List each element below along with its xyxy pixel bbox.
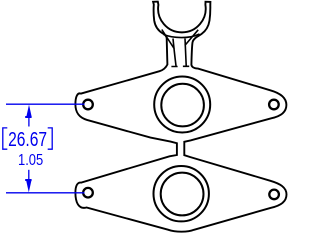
svg-text:26.67: 26.67 <box>8 128 47 151</box>
svg-text:1.05: 1.05 <box>18 152 43 169</box>
